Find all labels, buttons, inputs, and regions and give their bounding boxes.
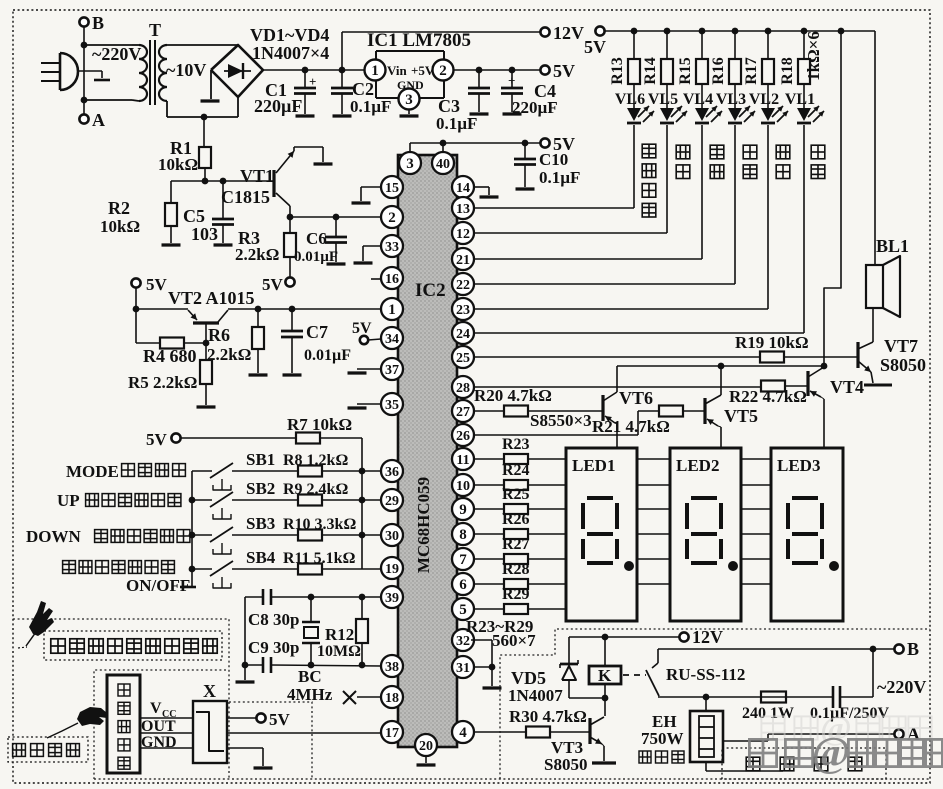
svg-text:C7: C7: [306, 322, 328, 342]
svg-text:S8050: S8050: [544, 755, 587, 774]
resistor R19 10k with pin25 wire: [474, 356, 760, 358]
svg-text:9: 9: [459, 502, 467, 518]
svg-text:0.01µF: 0.01µF: [294, 249, 338, 265]
wire 5V to VT2 rail: [135, 288, 137, 309]
svg-text:1kΩ×6: 1kΩ×6: [804, 31, 823, 81]
svg-text:R11 5.1kΩ: R11 5.1kΩ: [283, 550, 356, 567]
wire LED supply rail: [605, 30, 875, 32]
svg-text:R23: R23: [502, 436, 530, 453]
svg-text:R28: R28: [502, 561, 530, 578]
svg-text:6: 6: [459, 577, 467, 593]
capacitor C5 103: [222, 181, 224, 219]
svg-text:0.1µF: 0.1µF: [350, 97, 391, 116]
svg-text:@: @: [811, 730, 850, 776]
svg-text:16: 16: [385, 272, 399, 287]
resistors R23-R29 560 with pin wires: [474, 458, 504, 460]
label cooking device (Chinese): [722, 748, 886, 779]
capacitor C7 0.01uF: [291, 309, 293, 331]
relay coil K: [604, 637, 606, 666]
wire 12V to coil and VD5: [569, 636, 679, 638]
capacitor C10 0.1uF: [524, 143, 526, 159]
wire GND to ground: [227, 747, 263, 749]
svg-text:14: 14: [456, 181, 470, 196]
svg-text:11: 11: [456, 453, 469, 468]
svg-text:38: 38: [385, 660, 399, 675]
svg-text:750W: 750W: [641, 729, 684, 748]
wire heater to A: [723, 740, 768, 742]
svg-text:C5: C5: [183, 206, 205, 226]
pin15 ground: [361, 186, 381, 188]
svg-text:R10 3.3kΩ: R10 3.3kΩ: [283, 516, 356, 533]
IC1 ground: [408, 110, 410, 114]
transistor VT1 C1815: [272, 170, 275, 197]
IC1 pin 1: [365, 60, 386, 81]
svg-text:2: 2: [439, 63, 447, 79]
capacitor C8 30p with pin39 wire: [362, 596, 381, 598]
terminal B: [79, 17, 88, 26]
label porridge (Chinese): [710, 145, 724, 159]
capacitor C4 220uF: [511, 70, 513, 88]
svg-text:5V: 5V: [262, 275, 284, 294]
svg-text:10kΩ: 10kΩ: [100, 217, 140, 236]
svg-text:37: 37: [385, 363, 399, 378]
svg-text:R27: R27: [502, 536, 530, 553]
wire speaker supply: [874, 31, 876, 265]
svg-text:BC: BC: [298, 667, 322, 686]
svg-text:1: 1: [388, 302, 396, 318]
svg-text:1N4007×4: 1N4007×4: [252, 43, 329, 63]
svg-text:C1815: C1815: [221, 187, 270, 207]
resistor 240 1W: [761, 692, 786, 703]
svg-text:VT7: VT7: [884, 336, 918, 356]
wire pin2 line: [290, 216, 381, 218]
terminal 12V top: [540, 27, 549, 36]
label box control & power circuit (Chinese): [44, 631, 222, 660]
relay dashed link: [623, 674, 646, 676]
svg-text:R5 2.2kΩ: R5 2.2kΩ: [128, 373, 197, 392]
svg-text:R12: R12: [325, 625, 354, 644]
svg-text:12V: 12V: [553, 23, 584, 43]
svg-text:C9 30p: C9 30p: [248, 638, 299, 657]
svg-text:V: V: [150, 700, 162, 717]
pin18 no-connect X: [357, 696, 381, 698]
svg-text:VT6: VT6: [619, 388, 653, 408]
svg-text:R14: R14: [642, 57, 659, 85]
resistor R1 10k: [199, 147, 211, 168]
ground at bridge minus: [210, 70, 212, 99]
pushbutton SB3 with resistor R10 to pin 30: [192, 534, 212, 536]
wire B-A vertical: [83, 27, 85, 114]
LEDs VL6-VL1: [627, 108, 641, 121]
wire contact top to B: [658, 648, 894, 650]
svg-text:~10V: ~10V: [166, 60, 206, 80]
magnet temperature limiter box (Chinese): [107, 675, 140, 773]
terminal 5V main: [540, 65, 549, 74]
dashed border control section bottom-left: [13, 619, 229, 779]
svg-text:S8050: S8050: [880, 355, 926, 375]
IC1 pin 3 GND: [399, 89, 420, 110]
wire OUT: [140, 732, 193, 734]
svg-text:SB4: SB4: [246, 548, 276, 567]
label alarm indicator (Chinese): [642, 144, 656, 158]
transformer secondary winding ~10V: [159, 45, 167, 101]
segment bus wires between displays: [637, 458, 670, 460]
svg-text:R21 4.7kΩ: R21 4.7kΩ: [592, 417, 670, 436]
resistor R21 4.7k pin26 wire: [474, 434, 638, 436]
terminal 5V below R3: [285, 277, 294, 286]
svg-text:UP: UP: [57, 491, 80, 510]
terminal A right: [894, 729, 903, 738]
svg-text:31: 31: [456, 661, 470, 676]
svg-text:28: 28: [456, 381, 470, 396]
svg-text:R30 4.7kΩ: R30 4.7kΩ: [509, 707, 587, 726]
svg-text:4MHz: 4MHz: [287, 685, 333, 704]
svg-text:5V: 5V: [352, 320, 372, 337]
svg-text:8: 8: [459, 527, 467, 543]
svg-text:R7 10kΩ: R7 10kΩ: [287, 415, 352, 434]
svg-text:10kΩ: 10kΩ: [158, 155, 198, 174]
svg-text:SB2: SB2: [246, 479, 275, 498]
svg-text:29: 29: [385, 494, 399, 509]
terminal 5V VT2: [131, 278, 140, 287]
svg-text:MODE: MODE: [66, 462, 119, 481]
svg-text:10: 10: [456, 479, 470, 494]
svg-text:T: T: [149, 20, 161, 40]
svg-text:12V: 12V: [692, 627, 723, 647]
display LED1: [566, 448, 637, 621]
terminal 5V LED array: [595, 26, 604, 35]
svg-text:~220V: ~220V: [92, 44, 141, 64]
wire VT2 collector to pin1: [228, 308, 381, 310]
dashed border cooking section: [500, 629, 930, 779]
svg-text:VL3: VL3: [716, 91, 746, 108]
label rice (Chinese): [676, 145, 690, 159]
svg-text:25: 25: [456, 351, 470, 366]
wire contact bottom line: [658, 696, 832, 698]
display LED2: [670, 448, 741, 621]
svg-text:R19 10kΩ: R19 10kΩ: [735, 333, 809, 352]
svg-text:LED1: LED1: [572, 456, 615, 475]
svg-text:10MΩ: 10MΩ: [317, 643, 361, 660]
wire VT2 emitter rail: [136, 308, 188, 310]
svg-text:VD1~VD4: VD1~VD4: [250, 25, 329, 45]
wire OUT to pin17: [227, 732, 381, 734]
svg-text:VL4: VL4: [683, 91, 713, 108]
svg-text:VT1: VT1: [240, 166, 274, 186]
resistor R12 10M: [359, 594, 366, 601]
svg-text:3: 3: [405, 92, 413, 108]
svg-text:36: 36: [385, 465, 399, 480]
resistor R22 4.7k pin28 wire: [474, 386, 761, 388]
IC1 pin 2: [433, 60, 454, 81]
relay contact RU-SS-112: [657, 649, 659, 663]
resistor R4 680: [135, 309, 137, 343]
svg-text:R25: R25: [502, 486, 530, 503]
svg-text:26: 26: [456, 429, 470, 444]
wire DC rail: [263, 69, 366, 71]
transistor VT5 S8550: [703, 398, 706, 424]
capacitor C2 0.1uF: [341, 70, 343, 88]
svg-text:K: K: [598, 666, 612, 685]
svg-text:R26: R26: [502, 511, 530, 528]
connector X: [193, 701, 227, 763]
svg-text:7: 7: [459, 552, 467, 568]
svg-text:20: 20: [419, 739, 433, 754]
wire key common bus left: [191, 471, 193, 587]
svg-text:35: 35: [385, 398, 399, 413]
svg-text:34: 34: [385, 332, 399, 347]
resistor R6 2.2k: [257, 309, 259, 327]
terminal 5V (pins3/40): [540, 138, 549, 147]
svg-text:220µF: 220µF: [254, 96, 302, 116]
IC2 pin circles with numbers: [399, 152, 421, 174]
svg-text:13: 13: [456, 202, 470, 217]
svg-text:BL1: BL1: [876, 236, 909, 256]
svg-text:VT4: VT4: [830, 377, 864, 397]
svg-text:R8 1.2kΩ: R8 1.2kΩ: [283, 452, 348, 469]
svg-text:17: 17: [385, 726, 399, 741]
svg-text:VL2: VL2: [749, 91, 779, 108]
svg-text:SB1: SB1: [246, 450, 275, 469]
svg-text:5V: 5V: [584, 37, 606, 57]
terminal A: [79, 114, 88, 123]
terminal B right: [894, 644, 903, 653]
svg-text:LED3: LED3: [777, 456, 820, 475]
svg-text:R22 4.7kΩ: R22 4.7kΩ: [729, 387, 807, 406]
capacitor C3 0.1uF: [478, 70, 480, 88]
pin14 ground: [474, 186, 489, 188]
pointer hand 1: [29, 601, 54, 636]
pushbutton SB1 with resistor R8 to pin 36: [192, 470, 212, 472]
node VT2 base: [203, 340, 210, 347]
svg-text:0.01µF: 0.01µF: [304, 347, 351, 364]
svg-text:Vin: Vin: [387, 63, 408, 78]
svg-text:R4 680: R4 680: [143, 346, 197, 366]
svg-text:RU-SS-112: RU-SS-112: [666, 665, 745, 684]
watermark ghost: [761, 710, 931, 747]
resistor R7 10k: [181, 437, 296, 439]
display LED3: [771, 448, 843, 621]
transistor VT7 S8050: [856, 342, 859, 368]
svg-text:32: 32: [456, 634, 470, 649]
pins 32,31 ground: [471, 639, 492, 641]
svg-text:2: 2: [388, 210, 396, 226]
label run/cancel operation: [63, 561, 76, 574]
svg-text:220µF: 220µF: [512, 98, 558, 117]
capacitor C9 30p with pin38 wire: [245, 664, 263, 666]
svg-text:12: 12: [456, 227, 470, 242]
svg-text:DOWN: DOWN: [26, 527, 82, 546]
svg-text:23: 23: [456, 303, 470, 318]
svg-text:15: 15: [385, 181, 399, 196]
svg-text:R15: R15: [677, 57, 694, 85]
wire GND: [140, 747, 193, 749]
op IC1 LM7805 outline: [376, 50, 444, 52]
svg-text:0.1µF: 0.1µF: [539, 168, 580, 187]
svg-text:B: B: [92, 13, 104, 33]
svg-text:VL6: VL6: [615, 91, 645, 108]
diode VD5 1N4007: [568, 637, 570, 664]
resistor R30 4.7k pin4 wire: [474, 731, 526, 733]
capacitor C1 220uF: [304, 70, 306, 88]
wire driver 5V emitter line: [617, 365, 824, 367]
pushbutton SB4 with resistor R11 to pin 19: [192, 568, 212, 570]
pin35 ground: [357, 403, 381, 405]
svg-text:5V: 5V: [146, 275, 168, 294]
svg-text:4: 4: [459, 725, 467, 741]
svg-text:VL5: VL5: [648, 91, 678, 108]
svg-text:VD5: VD5: [511, 668, 546, 688]
svg-text:5: 5: [459, 602, 467, 618]
svg-text:R13: R13: [609, 57, 626, 85]
bridge rectifier VD1~VD4: [211, 45, 263, 97]
node secondary-bottom / R1 tap: [201, 114, 208, 121]
svg-text:R9 2.4kΩ: R9 2.4kΩ: [283, 481, 348, 498]
svg-text:0.1µF: 0.1µF: [436, 114, 477, 133]
svg-text:LED2: LED2: [676, 456, 719, 475]
pin16 stub: [371, 278, 381, 280]
resistor R5 2.2k: [205, 343, 207, 360]
svg-text:C6: C6: [306, 229, 327, 248]
svg-text:24: 24: [456, 327, 470, 342]
terminal 5V sensor: [227, 717, 256, 719]
svg-text:C10: C10: [539, 150, 568, 169]
pushbutton SB2 with resistor R9 to pin 29: [192, 499, 212, 501]
svg-text:IC2: IC2: [415, 280, 446, 301]
svg-text:5V: 5V: [146, 430, 168, 449]
svg-text:560×7: 560×7: [492, 631, 536, 650]
svg-text:R17: R17: [743, 57, 760, 85]
wire 5V rail right of IC1: [453, 69, 540, 71]
crystal BC 4MHz: [308, 594, 315, 601]
resistor R3 2.2k: [289, 217, 291, 233]
heater EH 750W: [705, 697, 707, 711]
wire 5V feed to driver emitters: [824, 31, 841, 366]
transistor VT6 S8550: [601, 395, 604, 421]
wire snubber to B node: [872, 649, 874, 697]
wire 12V branch: [341, 32, 343, 70]
svg-text:SB3: SB3: [246, 514, 275, 533]
svg-text:A: A: [92, 110, 105, 130]
svg-text:1N4007: 1N4007: [508, 686, 563, 705]
transformer primary winding: [84, 44, 132, 46]
label box temperature limiting device (Chinese): [8, 737, 88, 762]
svg-text:S8550×3: S8550×3: [530, 411, 592, 430]
svg-text:R2: R2: [108, 198, 130, 218]
svg-text:18: 18: [385, 691, 399, 706]
svg-text:C2: C2: [352, 79, 374, 99]
svg-text:39: 39: [385, 591, 399, 606]
svg-text:+5V: +5V: [411, 63, 435, 78]
svg-text:C3: C3: [438, 96, 460, 116]
wire Vcc: [140, 717, 193, 719]
svg-text:33: 33: [385, 240, 399, 255]
IC2 pin20 ground: [425, 756, 427, 763]
svg-text:C8 30p: C8 30p: [248, 610, 299, 629]
svg-text:5V: 5V: [269, 710, 291, 729]
wire C8 left leg: [244, 597, 246, 665]
svg-text:27: 27: [456, 405, 470, 420]
resistor R2 10k: [170, 181, 172, 203]
svg-text:21: 21: [456, 253, 470, 268]
terminal 12V relay: [679, 632, 688, 641]
wire speaker to VT7 collector: [872, 308, 874, 342]
svg-text:+: +: [309, 74, 316, 89]
pin33 ground: [363, 245, 381, 247]
svg-text:R29: R29: [502, 586, 530, 603]
svg-text:40: 40: [436, 157, 450, 172]
capacitor 0.1uF/250V: [832, 686, 835, 708]
label quick-cook (Chinese): [776, 145, 790, 159]
wire R1 node to VT1 base: [171, 180, 274, 182]
svg-text:VL1: VL1: [785, 91, 815, 108]
svg-text:103: 103: [191, 224, 218, 244]
capacitor C6 0.01uF: [335, 217, 337, 237]
svg-text:5V: 5V: [553, 61, 575, 81]
label keep-warm (Chinese): [811, 145, 825, 159]
svg-text:R18: R18: [779, 57, 796, 85]
wires LED cathodes to pins 13,12,21,22,23,24: [633, 125, 635, 208]
wire 5V line to pins 3/40: [410, 142, 540, 144]
AC plug: [41, 62, 59, 64]
svg-text:~220V: ~220V: [877, 677, 926, 697]
svg-text:3: 3: [406, 156, 414, 172]
svg-text:22: 22: [456, 278, 470, 293]
svg-text:30: 30: [385, 529, 399, 544]
pin37 ground: [357, 368, 381, 370]
dashed border sensor section: [94, 670, 226, 779]
svg-text:X: X: [203, 681, 216, 701]
dashed border notch around X: [229, 702, 312, 779]
svg-text:IC1 LM7805: IC1 LM7805: [367, 30, 471, 51]
svg-text:GND: GND: [397, 78, 424, 92]
label soup (Chinese): [743, 145, 757, 159]
svg-text:R6: R6: [208, 325, 230, 345]
svg-text:19: 19: [385, 562, 399, 577]
wire key common bus right: [361, 438, 363, 569]
svg-text:R20 4.7kΩ: R20 4.7kΩ: [474, 386, 552, 405]
svg-text:VT2 A1015: VT2 A1015: [168, 288, 255, 308]
svg-text:2.2kΩ: 2.2kΩ: [207, 345, 251, 364]
transistor VT2 A1015: [188, 310, 197, 320]
watermark headline: [749, 730, 943, 776]
svg-text:ON/OFF: ON/OFF: [126, 576, 190, 595]
svg-text:2.2kΩ: 2.2kΩ: [235, 245, 279, 264]
transformer T core: [149, 40, 151, 105]
IC2 MC68HC059 body: [398, 155, 457, 747]
resistor R20 4.7k pin27 wire: [474, 410, 504, 412]
transistor VT4 S8550: [806, 371, 809, 396]
svg-text:1: 1: [371, 63, 379, 79]
svg-text:MC68HC059: MC68HC059: [414, 477, 433, 573]
transistor VT3 S8050: [588, 718, 591, 744]
svg-text:240 1W: 240 1W: [742, 705, 794, 722]
svg-text:B: B: [907, 639, 919, 659]
svg-text:+: +: [508, 73, 515, 88]
resistors R13-R18 1k: [633, 31, 635, 59]
svg-text:R16: R16: [710, 57, 727, 85]
pointer hand 2: [77, 707, 107, 726]
svg-text:VT5: VT5: [724, 406, 758, 426]
svg-text:R24: R24: [502, 462, 530, 479]
